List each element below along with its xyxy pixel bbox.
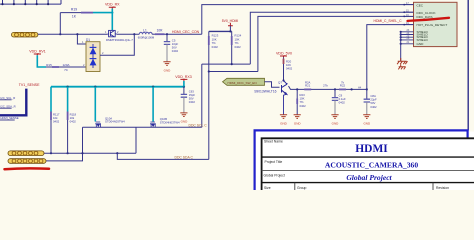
svg-text:GND: GND	[332, 121, 340, 125]
svg-text:GND: GND	[164, 69, 172, 73]
svg-text:0402: 0402	[339, 101, 346, 105]
resistor R13 pullup SDA	[209, 31, 219, 71]
svg-text:0402: 0402	[53, 120, 60, 124]
wire SDA bottom run to x208	[117, 153, 209, 159]
wire cyan from VDD_RV1	[37, 55, 46, 67]
wire HPD vertical to connector	[367, 25, 414, 90]
wire stub row3 with label	[0, 116, 19, 120]
wire stub row1 with label	[0, 96, 15, 100]
wire shield bus down	[400, 32, 402, 61]
wire SCL horizontal y64	[202, 63, 251, 65]
svg-text:STD04N03TW4: STD04N03TW4	[105, 120, 125, 124]
resistor R16 on CEC line	[152, 29, 202, 35]
svg-text:GND: GND	[417, 42, 425, 46]
wire SDA vertical descent x208.8	[208, 72, 210, 160]
ground GND under C9	[331, 115, 339, 126]
svg-text:GND: GND	[280, 121, 288, 125]
svg-text:0402: 0402	[172, 49, 179, 53]
power VDD_RX3	[175, 75, 192, 87]
wire CEC mid	[117, 33, 140, 35]
red marker swoosh on DDC_DATA	[408, 18, 450, 21]
svg-text:0402: 0402	[235, 45, 242, 49]
resistor R18 column	[68, 87, 77, 154]
node D1 top branch	[133, 33, 135, 35]
svg-text:D1: D1	[86, 38, 90, 42]
wire left drop to FB2 row	[46, 127, 83, 161]
wire SCL row y127	[83, 126, 202, 128]
node chain junctions	[296, 88, 298, 90]
svg-text:0402: 0402	[286, 67, 293, 71]
svg-text:5V0_HDMI: 5V0_HDMI	[222, 19, 239, 23]
transistor Q5 DMMT3904	[105, 30, 119, 37]
ferrite bead FB2	[8, 159, 46, 164]
svg-text:HDMI_C_SHEL_C: HDMI_C_SHEL_C	[374, 19, 403, 23]
svg-text:600R@100M: 600R@100M	[138, 35, 155, 39]
node VDD_RX junction	[111, 12, 113, 14]
resistor R17 column	[51, 87, 60, 154]
node SDA pullup junction	[208, 70, 210, 72]
capacitor C9 to ground	[332, 89, 346, 114]
power VDD_5V0	[276, 51, 292, 57]
svg-text:Global Project: Global Project	[346, 173, 392, 182]
title block row separators	[262, 157, 474, 190]
node C5 branch	[166, 33, 168, 35]
pin numbers	[406, 2, 410, 44]
svg-text:0402: 0402	[189, 100, 196, 104]
svg-text:TV1_SENSE: TV1_SENSE	[19, 83, 40, 87]
svg-text:GND: GND	[181, 120, 189, 124]
svg-text:VDD_RX3: VDD_RX3	[175, 75, 192, 79]
wire vertical x60 to resistor row	[59, 13, 61, 35]
ground GND under R23	[294, 115, 302, 126]
svg-text:DDC SCL C: DDC SCL C	[189, 123, 208, 127]
resistor R23 to ground	[297, 89, 306, 114]
svg-text:Project Title: Project Title	[265, 160, 283, 164]
svg-text:DDC SDA C: DDC SDA C	[175, 155, 194, 159]
transistor Q10A	[95, 122, 101, 127]
node SCL pullup junction	[231, 63, 233, 65]
resistor R20	[282, 57, 292, 81]
transistor Q10B	[150, 122, 156, 127]
svg-text:HDMI: HDMI	[355, 143, 388, 155]
node at x60 on CEC wire	[59, 33, 61, 35]
node shield junctions	[400, 31, 402, 33]
connector J1 HDMI	[414, 2, 458, 46]
svg-text:0402: 0402	[212, 45, 219, 49]
svg-text:120A: 120A	[62, 63, 69, 67]
capacitor C5	[164, 34, 179, 62]
svg-text:VDD_5V0: VDD_5V0	[276, 51, 292, 55]
svg-text:CEC: CEC	[417, 4, 424, 8]
capacitor C8A to ground	[364, 89, 377, 114]
transistor Q7	[282, 81, 288, 115]
diode pack D1	[86, 38, 100, 72]
resistor R19 on y12.6 run	[60, 8, 93, 19]
sheet border right edge	[467, 0, 469, 130]
node gate rail junctions	[66, 86, 68, 88]
wire HPD chain y89.4	[289, 86, 367, 89]
svg-text:VDD_RX: VDD_RX	[105, 3, 120, 7]
inductor L1	[138, 29, 155, 40]
svg-text:Group: Group	[297, 186, 307, 190]
svg-text:10R: 10R	[157, 29, 164, 33]
ground GND under C5	[163, 62, 171, 73]
wire CEC loop to connector	[202, 5, 414, 35]
resistor R22 on chain	[339, 80, 346, 89]
wire D1 right pin to CEC	[100, 34, 134, 55]
node FB1 row junctions	[50, 152, 52, 154]
earth chassis ground symbol	[397, 58, 407, 69]
svg-text:0402: 0402	[300, 104, 307, 108]
ferrite bead FB1	[8, 151, 44, 156]
svg-text:1K: 1K	[72, 15, 77, 19]
svg-text:GND: GND	[363, 121, 371, 125]
resistor R15 to D1	[46, 63, 86, 72]
pin stubs connector	[401, 5, 414, 44]
wire stub row2 with label	[0, 104, 16, 108]
power VDD_RV1	[29, 50, 46, 56]
title block inner black frame	[262, 138, 474, 190]
svg-text:R2A: R2A	[305, 80, 311, 84]
svg-text:DDC_DATA: DDC_DATA	[417, 15, 434, 19]
ground GND under C63	[180, 113, 188, 124]
capacitor C63	[181, 87, 196, 113]
node pin end dots	[403, 4, 405, 26]
svg-text:Global Project: Global Project	[264, 173, 285, 177]
red marker underline below FB2	[5, 167, 50, 170]
svg-text:HOT_PLUG_DETECT: HOT_PLUG_DETECT	[417, 23, 448, 27]
svg-text:R15: R15	[46, 63, 52, 67]
port HDMI_DDC_EN	[223, 78, 280, 87]
title block white field	[256, 132, 474, 191]
sheet background	[0, 0, 474, 190]
svg-text:DMMT3904DLQ4L-7: DMMT3904DLQ4L-7	[106, 38, 133, 42]
svg-text:HDMI_DDC_SW_EN: HDMI_DDC_SW_EN	[228, 81, 257, 85]
resistor R21 on chain	[304, 80, 311, 89]
svg-text:Q7: Q7	[278, 81, 282, 85]
node ruler junction dots	[1, 3, 49, 5]
svg-text:0402: 0402	[370, 105, 377, 109]
wire jog x136	[135, 127, 137, 153]
wire SCL vertical descent x201.8	[201, 64, 203, 127]
svg-text:0402: 0402	[70, 120, 77, 124]
wire CEC from FB3	[38, 33, 108, 35]
svg-text:Size: Size	[264, 186, 271, 190]
resistor R14 pullup SCL	[232, 31, 242, 64]
power VDD_RX	[105, 3, 120, 9]
svg-text:R19: R19	[71, 8, 77, 12]
wire cyan gate drop Q10A	[94, 87, 96, 122]
wire SDA horizontal y71.5	[209, 71, 258, 73]
bus thick navy left	[0, 89, 26, 116]
sheet border ruler top-left	[0, 0, 61, 4]
ferrite bead FB3	[12, 32, 38, 37]
wire FB1 row y153	[44, 152, 136, 154]
svg-text:S9013WHLT16: S9013WHLT16	[254, 89, 276, 93]
svg-text:HDMI_CEC_CON: HDMI_CEC_CON	[172, 30, 200, 34]
title block small labels	[264, 140, 450, 190]
wire cyan gate drop Q10B	[152, 87, 154, 122]
wire DDC_CLOCK loop to connector	[250, 12, 413, 64]
bus cyan gate rail y86.7	[51, 86, 184, 88]
wire D1 top pin branch	[77, 34, 86, 44]
ground GND under Q7 emitter	[280, 115, 288, 126]
wire cyan segment to VDD_RX node	[93, 12, 112, 14]
ground GND under C8A	[363, 115, 371, 126]
svg-text:ACOUSTIC_CAMERA_360: ACOUSTIC_CAMERA_360	[325, 160, 418, 169]
title block outer blue frame	[255, 130, 468, 190]
wire cyan vertical into Q5 base	[111, 9, 113, 31]
svg-text:Revision: Revision	[436, 186, 449, 190]
wire DDC_DATA loop to connector	[258, 16, 414, 71]
svg-text:STD04N03TW4: STD04N03TW4	[160, 120, 180, 124]
svg-text:VDD_RV1: VDD_RV1	[29, 50, 46, 54]
power 5V0_HDMI pullup rail	[209, 19, 239, 32]
svg-text:GND: GND	[294, 121, 302, 125]
svg-text:Sheet Name: Sheet Name	[264, 140, 283, 144]
svg-text:27b: 27b	[323, 84, 328, 88]
